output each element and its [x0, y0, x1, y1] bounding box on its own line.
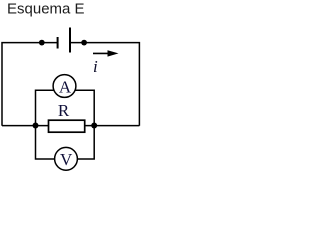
svg-text:R: R: [58, 101, 70, 120]
svg-text:Esquema E: Esquema E: [7, 1, 85, 18]
svg-text:A: A: [59, 77, 72, 96]
svg-text:i: i: [93, 57, 98, 76]
svg-text:V: V: [60, 150, 73, 169]
